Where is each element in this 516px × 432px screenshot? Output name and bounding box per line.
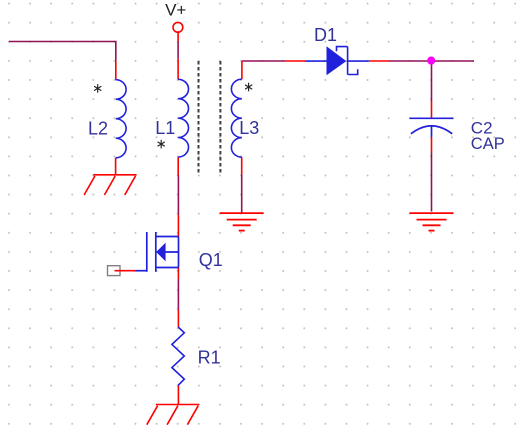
svg-text:CAP: CAP: [471, 135, 505, 153]
svg-text:D1: D1: [314, 25, 337, 45]
svg-text:V+: V+: [165, 0, 186, 19]
svg-text:L3: L3: [239, 118, 259, 138]
svg-text:L1: L1: [155, 118, 175, 138]
svg-text:L2: L2: [88, 119, 108, 139]
svg-text:R1: R1: [198, 348, 221, 368]
svg-text:Q1: Q1: [199, 250, 223, 270]
